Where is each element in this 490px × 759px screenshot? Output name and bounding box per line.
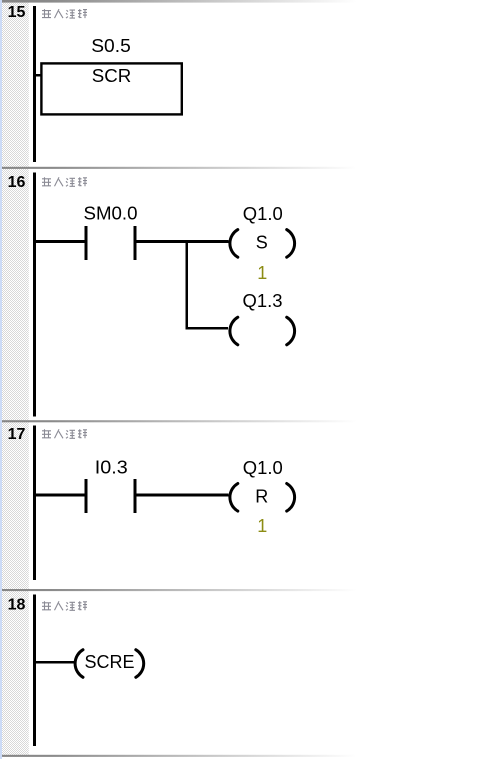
reset coil Q1.0 (R) [230, 484, 295, 512]
contact SM0.0 right bar [134, 226, 137, 260]
separator between network 17 and 18 [2, 589, 488, 591]
network 16 input comment 输入注释 [42, 177, 87, 186]
svg-text:SCRE: SCRE [85, 652, 135, 672]
separator between network 16 and 17 [2, 420, 488, 422]
svg-text:Q1.0: Q1.0 [243, 458, 283, 478]
power rail network 15 [33, 6, 36, 162]
svg-text:SM0.0: SM0.0 [84, 204, 138, 224]
svg-text:S0.5: S0.5 [91, 36, 131, 56]
wire stub rail to SCR box [36, 74, 41, 77]
svg-text:R: R [255, 487, 268, 507]
SCR box [41, 63, 181, 114]
svg-text:SCR: SCR [92, 66, 132, 86]
wire rail to contact SM0.0 [36, 240, 85, 243]
svg-text:17: 17 [8, 426, 26, 443]
set coil Q1.0 (S) [230, 230, 295, 258]
separator between network 15 and 16 [2, 167, 488, 169]
svg-text:1: 1 [257, 516, 267, 536]
wire contact I0.3 to coil Q1.0 [137, 494, 229, 497]
power rail network 17 [33, 425, 36, 580]
contact SM0.0 left bar [85, 226, 88, 260]
bottom separator [2, 755, 488, 757]
svg-text:1: 1 [257, 263, 267, 283]
contact I0.3 left bar [85, 479, 88, 513]
network 15 input comment 输入注释 [42, 9, 87, 18]
wire branch to coil Q1.3 [185, 327, 228, 330]
svg-text:Q1.3: Q1.3 [243, 291, 283, 311]
svg-text:16: 16 [8, 174, 26, 191]
wire rail to SCRE coil [36, 661, 75, 664]
power rail network 16 [33, 173, 36, 417]
wire contact SM0.0 to coil Q1.0 [137, 240, 229, 243]
svg-text:S: S [256, 233, 268, 253]
left edge strip [0, 0, 2, 759]
contact I0.3 right bar [134, 479, 137, 513]
network 17 input comment 输入注释 [42, 429, 87, 438]
branch junction vertical wire [185, 240, 188, 330]
wire rail to contact I0.3 [36, 494, 85, 497]
svg-text:18: 18 [8, 596, 26, 613]
network number gutter (dithered column) [2, 0, 29, 755]
output coil Q1.3 [230, 317, 295, 345]
network 18 input comment 输入注释 [42, 601, 87, 610]
top separator bar [2, 0, 488, 3]
SCRE coil [75, 650, 144, 678]
svg-text:15: 15 [8, 4, 26, 21]
svg-text:I0.3: I0.3 [95, 458, 128, 478]
svg-text:Q1.0: Q1.0 [243, 204, 283, 224]
power rail network 18 [33, 594, 36, 746]
